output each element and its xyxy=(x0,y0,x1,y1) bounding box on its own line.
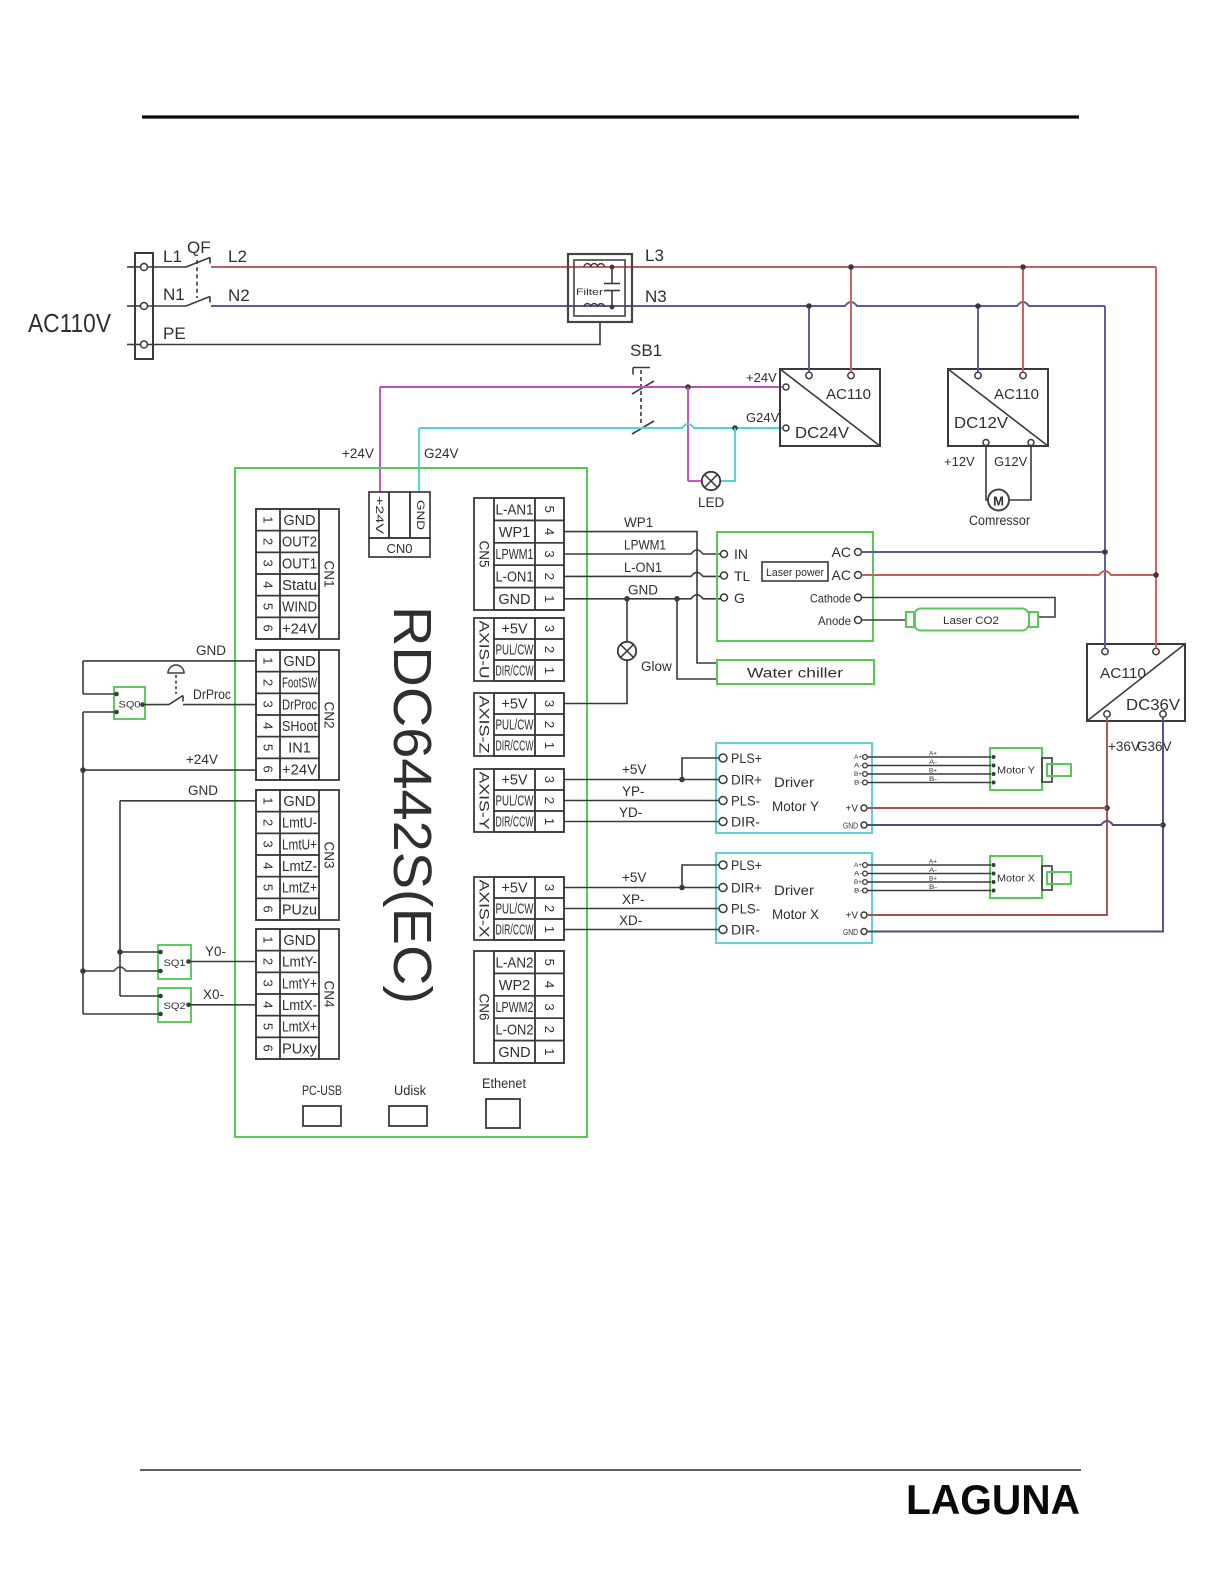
svg-text:PC-USB: PC-USB xyxy=(302,1083,342,1098)
switch SB1 xyxy=(632,368,654,435)
node +36V Y xyxy=(1104,805,1110,811)
svg-text:N3: N3 xyxy=(645,287,667,306)
port PC-USB xyxy=(302,1083,342,1126)
wire laser AC neutral xyxy=(862,551,1106,553)
svg-text:GND: GND xyxy=(498,592,530,608)
svg-text:AXIS-X: AXIS-X xyxy=(477,880,492,938)
wire SQ0 bottom to +24V rail xyxy=(83,712,117,1014)
wires motor Y phases xyxy=(868,752,992,784)
svg-text:GND: GND xyxy=(498,1045,530,1061)
svg-text:SQ0: SQ0 xyxy=(119,700,141,710)
svg-text:2: 2 xyxy=(261,958,276,965)
svg-text:X0-: X0- xyxy=(203,987,224,1002)
svg-text:6: 6 xyxy=(261,625,276,632)
svg-text:2: 2 xyxy=(261,679,276,686)
svg-text:GND: GND xyxy=(283,513,315,529)
wire laser AC live xyxy=(862,571,1157,575)
svg-text:YP-: YP- xyxy=(622,784,645,799)
svg-text:+5V: +5V xyxy=(501,881,528,897)
svg-text:3: 3 xyxy=(542,700,557,707)
svg-text:Water chiller: Water chiller xyxy=(747,666,844,681)
svg-text:Laser CO2: Laser CO2 xyxy=(943,615,999,627)
wire GND laser xyxy=(564,595,721,599)
svg-text:+24V: +24V xyxy=(373,496,385,535)
svg-text:LmtU+: LmtU+ xyxy=(282,837,317,853)
node +24V branch xyxy=(685,384,691,390)
node N3 dc12 xyxy=(975,303,981,309)
wire +12V to compressor xyxy=(986,446,988,501)
wire N2-N3 neutral xyxy=(211,302,1105,306)
power supply DC12V xyxy=(948,369,1048,446)
svg-text:4: 4 xyxy=(261,862,276,869)
svg-text:CN0: CN0 xyxy=(386,541,412,556)
connector AXIS-X xyxy=(474,877,564,940)
svg-text:LmtZ-: LmtZ- xyxy=(282,859,317,875)
lamp Glow xyxy=(618,642,672,674)
wire SQ2 out X0- xyxy=(189,1004,257,1006)
node G36V Y xyxy=(1160,822,1166,828)
svg-text:LPWM1: LPWM1 xyxy=(624,538,666,553)
svg-text:5: 5 xyxy=(261,603,276,610)
svg-text:DrProc: DrProc xyxy=(193,687,231,702)
svg-text:CN3: CN3 xyxy=(322,841,337,868)
wire LED return cyan xyxy=(721,428,736,481)
wire anode xyxy=(862,619,907,621)
svg-text:DIR/CCW: DIR/CCW xyxy=(496,739,534,755)
wire LPWM1 xyxy=(564,550,721,554)
terminal pin L1 xyxy=(141,264,148,271)
svg-text:QF: QF xyxy=(187,238,211,257)
connector CN4 xyxy=(256,929,339,1059)
node L3 dc12 xyxy=(1020,264,1026,270)
svg-text:Driver: Driver xyxy=(774,774,814,790)
svg-text:LED: LED xyxy=(698,495,725,510)
svg-text:SB1: SB1 xyxy=(630,341,662,360)
svg-text:PUzu: PUzu xyxy=(282,902,317,918)
top rule xyxy=(142,115,1079,118)
controller RDC6442S outline xyxy=(235,468,587,1137)
svg-text:IN1: IN1 xyxy=(288,741,311,757)
driver Motor Y box xyxy=(716,743,872,833)
svg-text:L3: L3 xyxy=(645,246,664,265)
svg-text:LAGUNA: LAGUNA xyxy=(906,1476,1080,1523)
svg-text:2: 2 xyxy=(261,538,276,545)
svg-text:GND: GND xyxy=(414,500,426,530)
svg-text:+V: +V xyxy=(845,804,858,815)
svg-text:GND: GND xyxy=(196,643,226,658)
svg-text:3: 3 xyxy=(261,980,276,987)
svg-text:+24V: +24V xyxy=(342,446,374,461)
driver Motor X box xyxy=(716,853,872,943)
connector CN0 xyxy=(369,492,430,557)
svg-text:AC: AC xyxy=(832,544,851,560)
svg-text:SQ1: SQ1 xyxy=(164,958,186,968)
svg-text:2: 2 xyxy=(261,819,276,826)
svg-text:1: 1 xyxy=(542,926,557,933)
svg-text:B+: B+ xyxy=(929,877,938,883)
svg-text:4: 4 xyxy=(261,581,276,588)
svg-text:3: 3 xyxy=(542,550,557,557)
svg-text:L-ON2: L-ON2 xyxy=(496,1023,534,1039)
wire PE xyxy=(148,322,601,345)
svg-text:PLS+: PLS+ xyxy=(731,857,762,873)
svg-text:5: 5 xyxy=(261,884,276,891)
svg-text:G: G xyxy=(734,590,745,606)
terminal pin N1 xyxy=(141,303,148,310)
svg-text:Anode: Anode xyxy=(818,614,851,628)
svg-text:LmtY+: LmtY+ xyxy=(282,976,317,992)
svg-text:CN6: CN6 xyxy=(477,993,492,1020)
svg-text:OUT2: OUT2 xyxy=(282,535,317,551)
node GND glow xyxy=(624,596,630,602)
svg-text:DC36V: DC36V xyxy=(1126,697,1180,714)
svg-text:+5V: +5V xyxy=(501,622,528,638)
svg-text:DIR/CCW: DIR/CCW xyxy=(496,923,534,939)
svg-text:G36V: G36V xyxy=(1137,739,1172,754)
svg-text:4: 4 xyxy=(261,722,276,729)
svg-text:3: 3 xyxy=(542,625,557,632)
svg-text:Glow: Glow xyxy=(641,659,672,674)
svg-text:PUL/CW: PUL/CW xyxy=(496,794,534,810)
node N3 dc24 xyxy=(806,303,812,309)
svg-text:GND: GND xyxy=(283,794,315,810)
pushbutton DrProc xyxy=(143,665,257,705)
svg-text:2: 2 xyxy=(542,573,557,580)
node +5V X xyxy=(679,885,685,891)
svg-text:+24V: +24V xyxy=(746,370,777,385)
svg-text:1: 1 xyxy=(542,818,557,825)
svg-text:1: 1 xyxy=(261,797,276,804)
svg-text:AXIS-Y: AXIS-Y xyxy=(477,772,492,830)
svg-text:GND: GND xyxy=(188,783,218,798)
svg-text:TL: TL xyxy=(734,568,751,584)
svg-text:3: 3 xyxy=(542,776,557,783)
svg-text:PE: PE xyxy=(163,324,186,343)
svg-text:3: 3 xyxy=(261,701,276,708)
svg-text:CN1: CN1 xyxy=(322,560,337,587)
svg-text:Cathode: Cathode xyxy=(810,592,851,606)
svg-text:1: 1 xyxy=(542,667,557,674)
svg-text:Udisk: Udisk xyxy=(394,1083,426,1098)
wire XP- xyxy=(564,908,719,910)
svg-text:DIR/CCW: DIR/CCW xyxy=(496,664,534,680)
svg-text:4: 4 xyxy=(542,528,557,535)
wire LED feed magenta xyxy=(687,387,689,481)
wire SQ1 bottom xyxy=(83,967,161,971)
svg-text:PLS-: PLS- xyxy=(731,901,760,917)
svg-text:+24V: +24V xyxy=(282,621,317,637)
wire CN2 +24V xyxy=(83,769,256,771)
wire +5V axis-X xyxy=(564,865,719,888)
svg-text:N1: N1 xyxy=(163,285,185,304)
svg-text:PLS+: PLS+ xyxy=(731,750,762,766)
laser tube Laser CO2 xyxy=(906,609,1038,631)
wire G36V rail xyxy=(867,717,1163,932)
svg-text:2: 2 xyxy=(542,1026,557,1033)
svg-text:PUL/CW: PUL/CW xyxy=(496,643,534,659)
svg-text:DC24V: DC24V xyxy=(795,425,849,442)
svg-text:Filter: Filter xyxy=(576,287,603,298)
svg-text:L1: L1 xyxy=(163,247,182,266)
water chiller box xyxy=(717,660,874,684)
wire +24V magenta xyxy=(380,387,782,492)
svg-text:Y0-: Y0- xyxy=(205,944,226,959)
svg-text:AC110: AC110 xyxy=(994,386,1039,403)
motor M compressor xyxy=(969,490,1030,529)
wire AC110 to DC24V neutral xyxy=(808,306,810,372)
svg-text:B+: B+ xyxy=(854,880,863,886)
svg-text:LmtU-: LmtU- xyxy=(282,816,317,832)
svg-text:DIR+: DIR+ xyxy=(731,772,762,788)
svg-text:IN: IN xyxy=(734,546,748,562)
svg-text:+24V: +24V xyxy=(186,752,218,767)
wire glow upper xyxy=(626,599,628,642)
svg-text:3: 3 xyxy=(542,884,557,891)
svg-text:+5V: +5V xyxy=(501,773,528,789)
connector CN1 xyxy=(256,509,339,639)
switch SQ2 xyxy=(158,988,191,1022)
svg-text:AXIS-U: AXIS-U xyxy=(477,621,492,679)
svg-text:+V: +V xyxy=(845,911,858,922)
wire +V motor Y xyxy=(867,807,1107,809)
svg-text:6: 6 xyxy=(261,1045,276,1052)
svg-text:LPWM1: LPWM1 xyxy=(496,547,534,563)
wire AC110 to DC12V live xyxy=(1022,267,1024,372)
breaker QF link xyxy=(196,260,198,298)
wire G12V to compressor xyxy=(1009,446,1031,501)
svg-text:4: 4 xyxy=(542,981,557,988)
svg-text:AXIS-Z: AXIS-Z xyxy=(477,696,492,754)
svg-text:FootSW: FootSW xyxy=(282,676,317,692)
motor Motor X xyxy=(990,856,1071,898)
wire L3 down to DC36V xyxy=(1155,267,1157,648)
power supply DC36V xyxy=(1087,644,1185,721)
svg-text:2: 2 xyxy=(542,721,557,728)
wire SQ2 top xyxy=(120,995,161,997)
svg-text:SHoot: SHoot xyxy=(282,719,317,735)
svg-text:GND: GND xyxy=(843,821,858,831)
svg-text:YD-: YD- xyxy=(619,805,642,820)
svg-text:AC110: AC110 xyxy=(1100,665,1146,682)
svg-text:+36V: +36V xyxy=(1108,739,1140,754)
svg-text:B-: B- xyxy=(929,777,937,783)
wire CN2 GND xyxy=(83,661,256,694)
svg-text:+5V: +5V xyxy=(501,697,528,713)
svg-text:G12V: G12V xyxy=(994,454,1028,469)
wire YP- xyxy=(564,800,719,802)
connector AXIS-U xyxy=(474,618,564,681)
svg-text:A+: A+ xyxy=(929,752,938,758)
svg-text:L-ON1: L-ON1 xyxy=(496,570,534,586)
svg-text:GND: GND xyxy=(283,654,315,670)
svg-text:+5V: +5V xyxy=(622,762,646,777)
svg-text:XP-: XP- xyxy=(622,892,645,907)
svg-text:RDC6442S(EC): RDC6442S(EC) xyxy=(382,606,442,1004)
svg-text:WIND: WIND xyxy=(282,600,317,616)
switch SQ1 xyxy=(158,945,191,979)
svg-text:+12V: +12V xyxy=(944,454,975,469)
port Ethenet xyxy=(482,1076,526,1128)
svg-text:GND: GND xyxy=(843,927,858,937)
svg-text:Motor Y: Motor Y xyxy=(772,798,820,814)
power supply DC24V xyxy=(780,369,880,446)
connector CN3 xyxy=(256,790,339,920)
svg-text:2: 2 xyxy=(542,797,557,804)
motor Motor Y xyxy=(990,748,1071,790)
svg-text:AC: AC xyxy=(832,567,851,583)
svg-text:WP1: WP1 xyxy=(499,525,530,541)
svg-text:LmtX+: LmtX+ xyxy=(282,1020,317,1036)
svg-text:LPWM2: LPWM2 xyxy=(496,1000,534,1016)
breaker QF pole N xyxy=(148,297,211,307)
svg-text:+24V: +24V xyxy=(282,762,317,778)
wire SQ2 bottom xyxy=(83,1013,161,1015)
wires motor X phases xyxy=(868,860,992,892)
terminal block X0 xyxy=(135,253,153,359)
EMI filter xyxy=(568,254,632,322)
node SQ1 top xyxy=(117,949,123,955)
svg-text:PUL/CW: PUL/CW xyxy=(496,902,534,918)
node AC neutral xyxy=(1102,549,1108,555)
port Udisk xyxy=(389,1083,427,1126)
svg-text:CN2: CN2 xyxy=(322,701,337,728)
svg-text:DC12V: DC12V xyxy=(954,415,1008,432)
svg-text:1: 1 xyxy=(261,936,276,943)
breaker QF pole L xyxy=(148,258,211,268)
svg-text:A-: A- xyxy=(854,764,862,770)
svg-text:GND: GND xyxy=(283,933,315,949)
svg-text:5: 5 xyxy=(261,744,276,751)
wire L-ON1 xyxy=(564,572,721,576)
svg-text:Motor Y: Motor Y xyxy=(997,765,1035,777)
svg-text:3: 3 xyxy=(261,841,276,848)
svg-text:PUL/CW: PUL/CW xyxy=(496,718,534,734)
svg-text:5: 5 xyxy=(261,1023,276,1030)
wire AC110 to DC12V neutral xyxy=(977,306,979,372)
svg-text:PUxy: PUxy xyxy=(282,1041,318,1057)
bottom rule xyxy=(140,1469,1081,1471)
svg-text:Motor X: Motor X xyxy=(997,873,1035,885)
terminal pin PE xyxy=(141,341,148,348)
svg-text:DIR/CCW: DIR/CCW xyxy=(496,815,534,831)
svg-text:OUT1: OUT1 xyxy=(282,556,317,572)
svg-text:1: 1 xyxy=(542,1048,557,1055)
wire AC110 to DC24V live xyxy=(850,267,852,372)
svg-text:2: 2 xyxy=(542,646,557,653)
svg-text:LmtZ+: LmtZ+ xyxy=(282,881,317,897)
svg-text:L2: L2 xyxy=(228,247,247,266)
node L3 dc24 xyxy=(848,264,854,270)
node SQ1 bottom rail xyxy=(80,968,86,974)
svg-text:Motor X: Motor X xyxy=(772,906,820,922)
svg-text:CN5: CN5 xyxy=(477,540,492,567)
laser power supply box xyxy=(717,532,873,641)
svg-text:3: 3 xyxy=(542,1003,557,1010)
svg-text:DIR+: DIR+ xyxy=(731,880,762,896)
svg-text:WP2: WP2 xyxy=(499,978,530,994)
connector AXIS-Z xyxy=(474,693,564,756)
svg-text:PLS-: PLS- xyxy=(731,793,760,809)
svg-text:4: 4 xyxy=(261,1001,276,1008)
svg-text:3: 3 xyxy=(261,560,276,567)
node GND chiller xyxy=(674,596,680,602)
wire CN3 GND xyxy=(120,801,256,996)
lamp LED xyxy=(688,472,725,510)
svg-text:A+: A+ xyxy=(929,860,938,866)
svg-text:B-: B- xyxy=(854,781,862,787)
wire XD- xyxy=(564,929,719,931)
svg-text:1: 1 xyxy=(261,516,276,523)
node +24V rail xyxy=(80,767,86,773)
connector CN2 xyxy=(256,650,339,780)
wire SQ1 top xyxy=(120,951,161,953)
svg-text:L-AN2: L-AN2 xyxy=(496,955,534,971)
svg-text:G24V: G24V xyxy=(424,446,459,461)
svg-text:A-: A- xyxy=(854,872,862,878)
svg-text:A-: A- xyxy=(929,868,937,874)
svg-text:SQ2: SQ2 xyxy=(164,1001,186,1011)
svg-text:Laser power: Laser power xyxy=(766,567,824,579)
svg-text:2: 2 xyxy=(542,905,557,912)
wire SQ1 out Y0- xyxy=(189,961,257,963)
connector CN6 xyxy=(474,951,564,1063)
wire glow lower xyxy=(564,660,627,703)
svg-text:M: M xyxy=(993,494,1004,509)
svg-text:1: 1 xyxy=(542,742,557,749)
svg-text:DrProc: DrProc xyxy=(282,697,317,713)
svg-text:Statu: Statu xyxy=(282,578,317,594)
wire GND to water chiller xyxy=(677,599,717,679)
svg-text:LmtY-: LmtY- xyxy=(282,955,317,971)
svg-text:DIR-: DIR- xyxy=(731,814,760,830)
svg-text:B+: B+ xyxy=(929,769,938,775)
svg-text:GND: GND xyxy=(628,583,658,598)
wire +5V axis-Y xyxy=(564,758,719,780)
svg-text:B-: B- xyxy=(854,889,862,895)
svg-text:XD-: XD- xyxy=(619,913,642,928)
wire SQ0 top xyxy=(83,693,117,695)
svg-text:6: 6 xyxy=(261,906,276,913)
svg-text:LmtX-: LmtX- xyxy=(282,998,317,1014)
wire L2-L3 live xyxy=(211,266,1156,268)
svg-text:AC110: AC110 xyxy=(826,386,871,403)
svg-text:WP1: WP1 xyxy=(624,515,653,530)
svg-text:CN4: CN4 xyxy=(322,980,337,1007)
svg-text:B-: B- xyxy=(929,885,937,891)
wire +36V rail xyxy=(867,717,1107,915)
svg-text:G24V: G24V xyxy=(746,410,780,425)
svg-text:1: 1 xyxy=(542,595,557,602)
svg-text:AC110V: AC110V xyxy=(28,308,112,338)
svg-text:Comressor: Comressor xyxy=(969,513,1030,528)
connector CN5 xyxy=(474,498,564,610)
svg-text:L-AN1: L-AN1 xyxy=(496,502,534,518)
switch SQ0 xyxy=(114,687,145,719)
svg-text:+5V: +5V xyxy=(622,870,646,885)
svg-text:1: 1 xyxy=(261,657,276,664)
wire WP1 xyxy=(564,532,717,663)
svg-text:A+: A+ xyxy=(854,755,863,761)
svg-text:5: 5 xyxy=(542,506,557,513)
svg-text:Driver: Driver xyxy=(774,882,814,898)
wire G24V cyan xyxy=(419,424,782,492)
svg-text:5: 5 xyxy=(542,959,557,966)
svg-text:N2: N2 xyxy=(228,286,250,305)
node G24V branch xyxy=(732,425,738,431)
wire cathode xyxy=(862,598,1056,618)
svg-text:Ethenet: Ethenet xyxy=(482,1076,526,1091)
wire YD- xyxy=(564,821,719,823)
